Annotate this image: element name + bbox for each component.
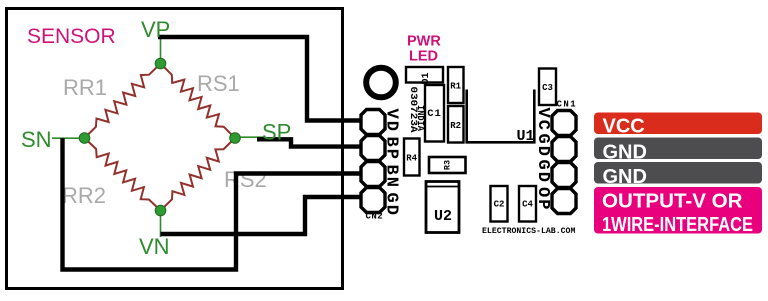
svg-text:OUTPUT-V OR: OUTPUT-V OR	[602, 191, 743, 213]
capacitor C2	[491, 186, 508, 222]
wire SN to pad BN	[63, 138, 361, 269]
capacitor C4	[519, 186, 536, 222]
resistor RR2	[85, 138, 161, 211]
resistor R2	[448, 106, 464, 143]
svg-text:R1: R1	[450, 82, 461, 92]
net label VCC	[594, 113, 762, 135]
svg-text:GD: GD	[533, 134, 552, 158]
svg-text:SN: SN	[21, 127, 52, 152]
pad BN	[361, 162, 385, 187]
capacitor C3	[539, 69, 556, 106]
wire SP to pad BP	[257, 139, 360, 146]
pad GD	[361, 188, 385, 213]
resistor RR1	[85, 64, 161, 139]
connector CN2 pads	[361, 110, 385, 213]
svg-text:RR1: RR1	[63, 75, 107, 100]
sensor box	[7, 9, 343, 289]
node VN stub	[160, 210, 162, 237]
svg-text:GND: GND	[603, 166, 647, 188]
svg-text:R3: R3	[442, 160, 452, 170]
node SN dot	[79, 133, 90, 144]
svg-text:R2: R2	[450, 121, 461, 131]
svg-text:GD: GD	[382, 193, 401, 217]
svg-text:VC: VC	[533, 108, 552, 132]
svg-text:GD: GD	[533, 160, 552, 184]
svg-text:U1: U1	[516, 128, 534, 145]
resistor RS2	[161, 138, 236, 211]
svg-text:PWR: PWR	[407, 34, 441, 50]
svg-text:D1: D1	[421, 72, 432, 84]
connector CN1 pads	[552, 111, 576, 214]
svg-text:INDIA: INDIA	[415, 105, 425, 132]
node VN dot	[155, 205, 166, 216]
wire VN to pad GD	[161, 197, 361, 234]
pad GD1	[552, 137, 576, 162]
svg-text:VP: VP	[141, 17, 170, 42]
svg-text:C1: C1	[427, 108, 442, 120]
svg-text:BN: BN	[382, 165, 401, 189]
node SN stub	[52, 137, 84, 139]
svg-text:CN1: CN1	[557, 100, 578, 110]
svg-text:VCC: VCC	[603, 115, 645, 137]
svg-text:C4: C4	[522, 200, 533, 210]
svg-text:1WIRE-INTERFACE: 1WIRE-INTERFACE	[602, 214, 753, 236]
svg-text:OP: OP	[533, 187, 552, 211]
pad GD2	[552, 163, 576, 188]
net label GND 1	[594, 138, 762, 160]
resistor R4	[404, 139, 420, 176]
svg-text:RR2: RR2	[62, 183, 106, 208]
capacitor C1	[425, 85, 444, 142]
resistor R3	[429, 157, 466, 173]
svg-text:R4: R4	[406, 154, 417, 164]
pad OP	[552, 189, 576, 214]
svg-text:SENSOR: SENSOR	[27, 25, 116, 48]
resistor R1	[448, 67, 464, 103]
svg-text:SP: SP	[262, 120, 291, 145]
LED D1 donut	[366, 68, 396, 98]
pad VD	[361, 110, 385, 135]
svg-text:CN2: CN2	[366, 212, 384, 222]
svg-text:U2: U2	[434, 208, 452, 225]
svg-text:LED: LED	[409, 49, 438, 65]
node SP dot	[230, 133, 241, 144]
svg-text:GND: GND	[603, 141, 647, 163]
node VP stub	[160, 37, 162, 63]
pad BP	[361, 136, 385, 161]
svg-text:VD: VD	[382, 109, 401, 133]
svg-text:RS2: RS2	[224, 167, 267, 192]
net label OUTPUT	[594, 187, 762, 234]
svg-text:VN: VN	[139, 234, 170, 259]
node VP dot	[155, 58, 166, 69]
svg-text:RS1: RS1	[197, 71, 240, 96]
resistor RS1	[161, 64, 236, 139]
svg-text:C3: C3	[542, 83, 553, 93]
wire VP to pad VD	[158, 37, 360, 121]
IC U1 outline (open top)	[467, 90, 535, 143]
svg-text:BP: BP	[382, 137, 401, 161]
svg-text:ELECTRONICS-LAB.COM: ELECTRONICS-LAB.COM	[482, 227, 575, 236]
pad VC	[552, 111, 576, 136]
node SP stub	[235, 136, 264, 138]
IC U2	[426, 182, 459, 233]
svg-text:C2: C2	[494, 200, 505, 210]
net label GND 2	[594, 162, 762, 184]
diode D1 box	[406, 67, 443, 83]
